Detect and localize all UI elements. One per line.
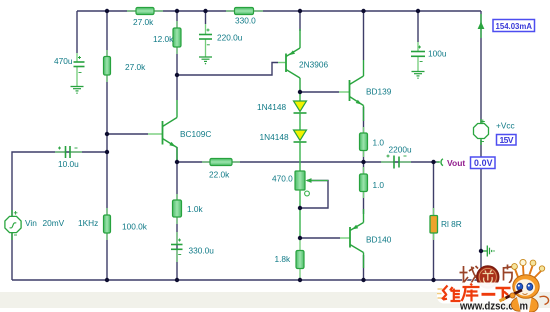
node top rail x107: [105, 9, 109, 13]
svg-text:1.0: 1.0: [373, 180, 385, 190]
wire 1k 330u column: [176, 162, 178, 280]
svg-text:154.03mA: 154.03mA: [496, 21, 533, 31]
ground below 100u: [412, 72, 425, 79]
diode D2 1N4148: [294, 130, 307, 171]
diode D1 1N4148: [294, 92, 307, 130]
wire feedback rail y162: [177, 161, 434, 163]
wire top rail: [77, 10, 481, 12]
watermark stamp circle xin: [477, 266, 499, 288]
svg-text:100u: 100u: [428, 49, 447, 59]
node top rail x363: [361, 9, 365, 13]
svg-text:1N4148: 1N4148: [257, 102, 286, 112]
svg-text:1.0: 1.0: [373, 138, 385, 148]
wire 100u drop: [417, 11, 419, 42]
node bottom rail x177: [175, 278, 179, 282]
watermark white plate: [437, 283, 514, 304]
node top rail x177: [175, 9, 179, 13]
watermark text wei: [442, 286, 461, 302]
PROBE-BOXES: [471, 20, 535, 169]
wire load column: [433, 162, 435, 280]
ground right rotated: [481, 246, 495, 257]
wire output column: [363, 107, 365, 214]
watermark mascot: [500, 259, 549, 312]
resistor R 1.0 bottom output: [360, 167, 368, 198]
svg-text:1.0k: 1.0k: [187, 204, 204, 214]
resistor R 27.0k horizontal top: [127, 8, 163, 15]
wire Vcc bottom to ground corner: [480, 140, 482, 280]
resistor R 1.8k vertical: [296, 238, 304, 280]
probe box 15V: [497, 135, 517, 146]
resistor Rl 8R load: [430, 208, 438, 240]
transistor Q2 2N3906 PNP: [278, 29, 300, 92]
resistor R 27.0k vertical: [104, 50, 111, 82]
GREEN-PARTS: [5, 8, 495, 281]
wire pot wiper loop: [300, 181, 328, 209]
transistor Q3 BD139 NPN: [339, 60, 364, 121]
wire BD140 base: [300, 237, 340, 239]
node bottom rail x433: [431, 278, 435, 282]
transistor Q4 BD140 PNP: [340, 209, 364, 268]
svg-text:1KHz: 1KHz: [78, 218, 98, 228]
svg-text:27.0k: 27.0k: [125, 62, 146, 72]
svg-text:BD139: BD139: [366, 87, 392, 97]
node Vout load tap: [431, 160, 435, 164]
node BC109C base: [105, 132, 109, 136]
svg-text:2N3906: 2N3906: [299, 60, 328, 70]
svg-text:0.0V: 0.0V: [474, 158, 493, 168]
svg-text:470.0: 470.0: [272, 174, 293, 184]
svg-text:15V: 15V: [500, 135, 514, 145]
ground below 220.0u: [199, 57, 212, 64]
resistor R 330.0 horizontal top: [226, 8, 263, 15]
watermark char pian: [504, 265, 514, 284]
source Vin sine: [5, 210, 21, 240]
svg-text:Rl 8R: Rl 8R: [441, 219, 462, 229]
svg-text:BC109C: BC109C: [180, 129, 211, 139]
wire BC109C emitter column: [176, 147, 178, 162]
wire 220u drop: [205, 11, 207, 24]
resistor R 12.0k vertical: [173, 21, 181, 54]
WIRES-NAVY: [12, 11, 481, 280]
node bottom rail x363: [361, 278, 365, 282]
capacitor C 470u electrolytic: [74, 53, 85, 86]
svg-text:Vin: Vin: [25, 218, 37, 228]
capacitor C 220.0u electrolytic: [199, 24, 212, 57]
watermark text xia: [496, 288, 511, 301]
node top rail x418: [416, 9, 420, 13]
node bottom rail x300: [298, 278, 302, 282]
node ground tap right: [479, 249, 483, 253]
node bottom rail x107: [105, 278, 109, 282]
terminal Vout: [437, 161, 441, 163]
ground below 470u: [71, 87, 84, 94]
svg-text:330.0u: 330.0u: [189, 246, 215, 256]
wire Vout stub: [434, 161, 440, 163]
wire Vcc right drop: [480, 11, 482, 123]
svg-text:100.0k: 100.0k: [122, 222, 148, 232]
svg-text:470u: 470u: [54, 56, 73, 66]
JUNCTION-DOTS: [105, 9, 483, 282]
wire 12k to VAS node: [176, 11, 178, 100]
svg-text:1N4148: 1N4148: [260, 132, 289, 142]
svg-text:Vout: Vout: [447, 158, 465, 168]
svg-text:BD140: BD140: [366, 235, 392, 245]
WATERMARK: [437, 259, 549, 312]
wire input left loop: [12, 152, 107, 280]
capacitor C 100u electrolytic: [411, 42, 425, 71]
svg-text:22.0k: 22.0k: [209, 170, 230, 180]
node VAS x177 y75: [175, 73, 179, 77]
svg-text:+Vcc: +Vcc: [496, 121, 515, 131]
node input coupling: [105, 150, 109, 154]
current probe arrow 154mA: [478, 14, 485, 38]
capacitor C 330.0u electrolytic: [171, 232, 183, 262]
transistor Q1 BC109C NPN: [148, 100, 177, 162]
probe box 0.0V: [471, 157, 496, 169]
wire bottom rail: [12, 279, 481, 281]
node top rail x205: [203, 9, 207, 13]
resistor R 22.0k horizontal feedback: [202, 159, 240, 166]
wire 2N3906 emitter drop: [299, 11, 301, 31]
svg-text:220.0u: 220.0u: [217, 33, 243, 43]
svg-text:12.0k: 12.0k: [153, 34, 174, 44]
resistor R 100.0k vertical: [104, 208, 111, 240]
wire BD139 collector drop: [363, 11, 365, 60]
resistor R 1.0k vertical: [173, 194, 182, 224]
svg-text:27.0k: 27.0k: [133, 17, 154, 27]
node BC109C emitter: [175, 160, 179, 164]
wire 470u drop: [76, 11, 78, 53]
capacitor C 2200u output horizontal: [381, 155, 411, 169]
watermark text ku: [462, 284, 480, 302]
svg-text:10.0u: 10.0u: [58, 159, 79, 169]
node output: [361, 160, 365, 164]
node 2N3906 collector: [298, 90, 302, 94]
wire left bias column x107: [106, 11, 108, 280]
source V1 +Vcc 15V: [474, 119, 489, 145]
watermark speed lines: [437, 289, 443, 298]
svg-text:1.8k: 1.8k: [275, 254, 292, 264]
resistor R 1.0 top output: [360, 127, 368, 157]
watermark char zhao: [460, 266, 479, 285]
watermark text yi: [482, 293, 496, 296]
potentiometer 470.0: [295, 171, 328, 238]
svg-text:330.0: 330.0: [235, 16, 256, 26]
wire VAS node to 2N3906 base: [177, 63, 278, 76]
probe box 154.03mA: [493, 20, 535, 32]
node BD140 base join: [298, 236, 302, 240]
svg-text:2200u: 2200u: [389, 145, 412, 155]
wire base feed BC109C: [107, 133, 148, 135]
node top rail x300: [298, 9, 302, 13]
svg-text:20mV: 20mV: [43, 218, 65, 228]
wire output column lower: [363, 255, 365, 280]
wire 2N3906 collector to BD139 base: [300, 91, 339, 93]
node pot wiper join: [298, 206, 302, 210]
capacitor C 10.0u coupling horizontal: [55, 146, 82, 158]
